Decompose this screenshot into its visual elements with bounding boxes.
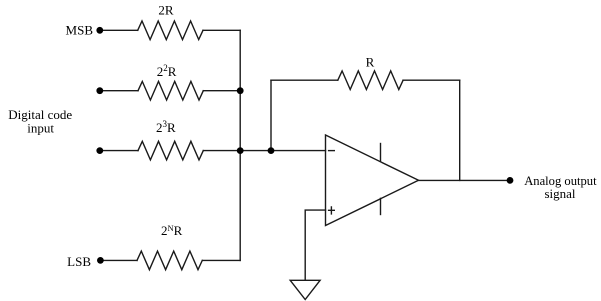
resistor R5 (R feedback) — [338, 71, 403, 90]
wire LSB input to R4 — [104, 259, 138, 261]
node LSB terminal dot — [97, 257, 104, 264]
junction bus row2 — [237, 87, 244, 94]
svg-text:input: input — [27, 120, 54, 135]
svg-text:signal: signal — [544, 186, 575, 201]
svg-text:LSB: LSB — [67, 254, 91, 269]
ground — [290, 280, 320, 299]
wire feedback riser from node A — [270, 80, 272, 150]
wire feedback drop to output — [459, 80, 461, 180]
svg-text:2R: 2R — [158, 2, 174, 17]
node analog output dot — [507, 177, 514, 184]
wire bit3 input to R3 — [103, 150, 139, 152]
op-amp plus sign — [329, 207, 335, 214]
wire R3 to op-amp inverting input — [203, 150, 325, 152]
resistor R1 (2R) — [138, 21, 203, 40]
resistor R4 (2^N R) — [137, 251, 202, 270]
wire MSB input to R1 — [103, 29, 138, 31]
wire R4 to bus — [202, 259, 240, 261]
svg-text:22R: 22R — [157, 63, 177, 79]
svg-text:23R: 23R — [156, 119, 176, 135]
op-amp U1 — [326, 135, 419, 226]
junction bus row3 — [237, 147, 244, 154]
wire summing bus vertical — [239, 30, 241, 260]
svg-text:2NR: 2NR — [161, 223, 183, 238]
wire R1 to bus — [203, 29, 240, 31]
wire op-amp output — [419, 179, 511, 181]
node bit3 terminal dot — [96, 147, 103, 154]
wire R2 to bus — [203, 90, 240, 92]
wire feedback top left to R5 — [271, 79, 338, 81]
svg-text:R: R — [366, 55, 375, 70]
resistor R3 (2^3 R) — [138, 141, 203, 160]
node MSB terminal dot — [96, 27, 103, 34]
node A feedback junction — [268, 147, 275, 154]
resistor R2 (2^2 R) — [138, 81, 203, 100]
wire op-amp non-inverting input to ground — [305, 210, 325, 280]
wire bit2 input to R2 — [103, 90, 139, 92]
op-amp minus sign — [329, 150, 335, 152]
svg-text:MSB: MSB — [66, 22, 94, 37]
node bit2 terminal dot — [96, 87, 103, 94]
op-amp lower supply tick — [380, 198, 382, 214]
wire R5 to right drop — [403, 79, 460, 81]
op-amp upper supply tick — [380, 144, 382, 162]
